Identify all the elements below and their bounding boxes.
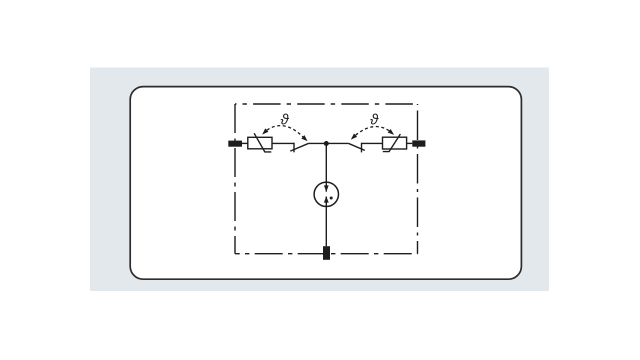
wire MOV1 to disconnector F1 (272, 142, 294, 144)
wire MOV2 to terminal-right (407, 142, 413, 144)
gas discharge tube G1 upper electrode arrowhead (324, 185, 329, 191)
wire F1 blade to node K (309, 142, 327, 144)
wire gas discharge tube to terminal-bottom (325, 197, 327, 247)
gas discharge tube G1 envelope (314, 182, 338, 206)
node K junction dot (324, 141, 329, 146)
terminal right (black block) (412, 140, 425, 146)
thermal coupling arc left (dashed) (267, 126, 303, 137)
enclosure dash-dot boundary right (417, 104, 419, 254)
svg-text:ϑ: ϑ (370, 112, 379, 129)
wire node K down to gas discharge tube (325, 143, 327, 191)
gas discharge tube G1 gas-filled dot (330, 197, 333, 200)
rounded device frame (130, 87, 521, 280)
disconnector F1 blade (290, 143, 308, 151)
varistor MOV2 strike (383, 134, 401, 152)
disconnector F2 blade (348, 143, 365, 150)
thermal arc left arrowhead left end (262, 128, 268, 134)
terminal left (black block) (228, 141, 242, 147)
wire node K to disconnector F2 (326, 142, 348, 144)
thermal arc right arrowhead right end (388, 129, 394, 135)
terminal bottom (black block) (323, 246, 330, 260)
wire terminal-left to varistor MOV1 (242, 142, 248, 144)
gas discharge tube G1 lower electrode arrowhead (324, 196, 329, 202)
thermal arc left arrowhead right end (301, 135, 307, 141)
disconnector F2 fixed contact (361, 143, 363, 153)
svg-text:ϑ: ϑ (280, 112, 289, 129)
enclosure dash-dot boundary left (234, 104, 236, 254)
panel background (90, 68, 549, 292)
thermal coupling arc right (dashed) (356, 127, 390, 136)
wire F2 to varistor MOV2 (362, 142, 383, 144)
thermal arc right arrowhead left end (351, 134, 357, 140)
varistor MOV1 body (248, 137, 272, 149)
varistor MOV2 body (383, 137, 407, 149)
disconnector F1 fixed contact (293, 143, 295, 153)
enclosure dash-dot boundary bottom (235, 253, 418, 255)
varistor MOV1 strike (254, 133, 271, 152)
enclosure dash-dot boundary top (235, 103, 418, 105)
